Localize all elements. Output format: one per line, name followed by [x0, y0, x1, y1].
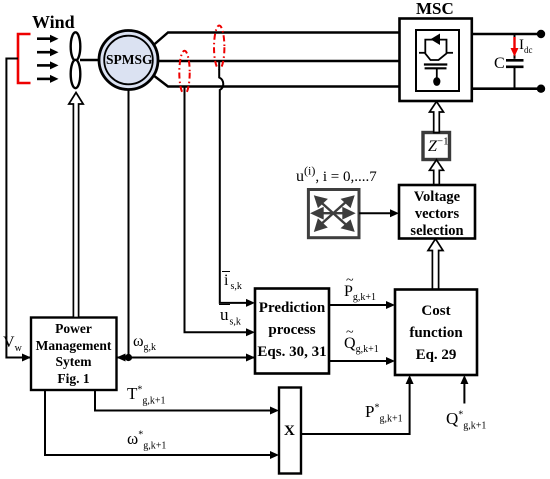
arrowhead i_s,k into Prediction: [246, 299, 255, 307]
wire T* from PM to X: [95, 390, 248, 411]
Z^-1 block: [423, 133, 450, 160]
outline arrow Z to MSC: [430, 102, 444, 133]
arrowhead P~: [386, 301, 395, 309]
outline arrow PM box to turbine: [69, 93, 83, 318]
text Cost function Eq. 29: [395, 300, 477, 366]
wire u_s,k sense line: [185, 87, 249, 332]
multiplier X box: [279, 388, 301, 474]
Power Management System box: [31, 318, 117, 391]
label X multiplier: [284, 424, 295, 439]
terminal dot bottom: [537, 85, 545, 93]
wire DC bus top: [472, 33, 542, 36]
arrowhead u_s,k into Prediction: [246, 328, 255, 336]
label Q~_g,k+1: [344, 336, 379, 352]
wire DC bus bottom: [472, 87, 542, 90]
arrowhead omega* into X: [270, 451, 279, 459]
wire T* segment2: [246, 410, 272, 412]
outline arrow Cost to VVS: [428, 239, 443, 290]
MSC inner box: [416, 30, 459, 91]
turbine blades: [71, 32, 81, 88]
wire Q* arrow: [463, 382, 465, 404]
outline arrow VVS to Z: [430, 160, 444, 185]
label SPMSG: [106, 53, 153, 67]
wire Q~ prediction to cost: [329, 360, 388, 362]
wire i_s,k sense line with hop over phase c: [219, 62, 248, 303]
junction node omega: [125, 354, 132, 361]
label V_w: [3, 335, 22, 351]
wire P* from X to Cost: [301, 382, 410, 434]
wire phase c: [153, 75, 400, 87]
label C: [494, 56, 505, 72]
label u(i), i = 0,....7: [296, 169, 377, 185]
IGBT bottom terminal dot: [433, 77, 440, 86]
label Q*_g,k+1: [446, 410, 486, 427]
voltage vectors box u(i): [308, 190, 359, 238]
Voltage vectors selection box: [399, 185, 475, 239]
terminal dot top: [537, 30, 545, 38]
IGBT arrow (filled, pointing left): [431, 34, 441, 46]
arrowhead Q* into Cost: [460, 375, 468, 384]
capacitor C: [506, 34, 524, 89]
Prediction process box: [255, 289, 329, 374]
arrowhead omega into PM box: [117, 354, 126, 362]
text Voltage vectors selection: [399, 189, 475, 240]
wire omega* from PM to X: [45, 390, 272, 455]
label P~_g,k+1: [344, 284, 376, 300]
arrowhead Q~: [386, 357, 395, 365]
wire P~ prediction to cost: [329, 304, 388, 306]
arrowhead P* into Cost: [406, 375, 414, 384]
arrowhead into VVS: [390, 209, 399, 217]
label MSC: [416, 0, 454, 17]
current sensor ellipse (red, phases b-c): [179, 51, 189, 95]
wind arrow 3: [37, 61, 59, 69]
IGBT symbol: [419, 40, 453, 78]
text Prediction process Eqs. 30, 31: [255, 297, 329, 363]
wire u(i) box to VVS: [359, 212, 392, 214]
label P*_g,k+1: [365, 403, 403, 420]
wind arrow 2: [37, 48, 59, 56]
vector arrows inside u(i) box: [313, 197, 353, 230]
wire phase b: [158, 60, 400, 62]
label T*_g,k+1: [127, 385, 166, 402]
label I_dc: [519, 38, 533, 53]
label omega_g,k: [133, 334, 156, 350]
arrowhead omega into Prediction: [246, 354, 255, 362]
text Power Management Sytem Fig. 1: [31, 321, 116, 387]
label Wind: [32, 13, 75, 31]
I_dc red arrow: [511, 37, 519, 57]
wire phase a: [153, 33, 400, 46]
current sensor ellipse (red, phases a-b): [214, 26, 224, 70]
shaft turbine to generator: [80, 59, 100, 61]
arrowhead Vw into PM box: [22, 354, 31, 362]
wind arrow 4: [37, 75, 59, 83]
MSC outer box: [400, 19, 472, 102]
label Z^-1: [428, 139, 449, 155]
label i_s,k with overbar: [222, 273, 242, 289]
Cost function box: [395, 290, 477, 376]
generator SPMSG: [99, 31, 158, 90]
wire speed sense from SPMSG bottom: [128, 90, 130, 358]
red bracket (wind): [18, 34, 31, 83]
label omega*_g,k+1: [127, 430, 166, 447]
arrowhead T* into X: [270, 407, 279, 415]
wind arrow 1: [37, 35, 59, 43]
label u_s,k with overbar: [219, 306, 241, 323]
wire Vw feedback from bracket to Power Management System: [6, 59, 270, 358]
wire omega_g,k horizontal: [120, 357, 248, 359]
